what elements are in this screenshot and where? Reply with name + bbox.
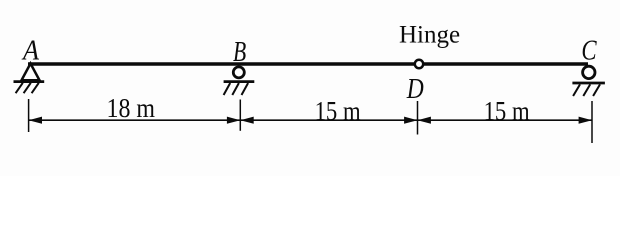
svg-text:18 m: 18 m (107, 92, 156, 123)
extension line at A (28, 99, 30, 132)
beam A-C (28, 62, 588, 66)
pin support at A (14, 64, 45, 94)
extension line at C (591, 101, 593, 143)
svg-text:D: D (406, 74, 424, 105)
dimension line B-D (240, 117, 417, 124)
dimension line D-C (418, 117, 593, 124)
roller support at C (572, 66, 605, 96)
svg-text:Hinge: Hinge (399, 22, 460, 49)
roller support at B (224, 67, 255, 95)
svg-text:A: A (21, 35, 39, 67)
hinge circle at D (415, 60, 423, 68)
dimension line A-B (29, 117, 241, 124)
svg-text:B: B (233, 37, 246, 68)
svg-text:15 m: 15 m (484, 95, 530, 126)
extension line at B (239, 100, 241, 131)
svg-text:C: C (581, 35, 597, 67)
extension line at D (417, 101, 419, 135)
svg-text:15 m: 15 m (315, 95, 361, 126)
